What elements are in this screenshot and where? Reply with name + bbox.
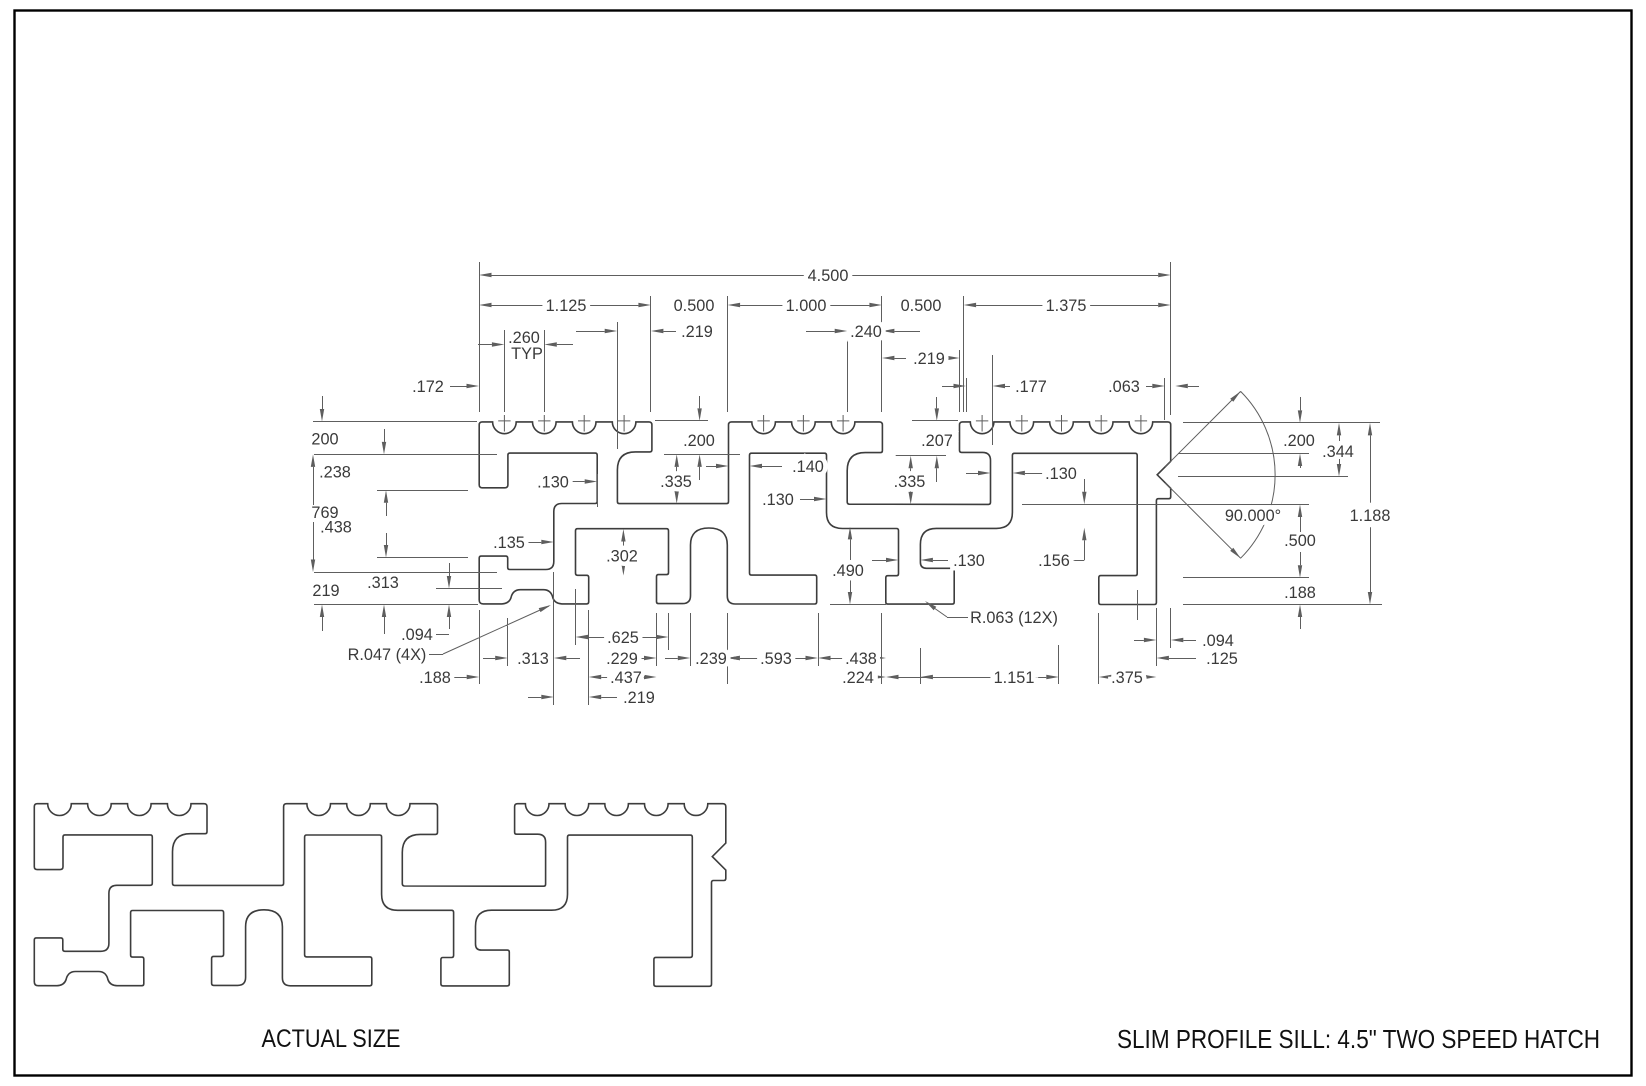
svg-text:.344: .344 [1322, 443, 1354, 461]
svg-text:.238: .238 [319, 463, 351, 481]
svg-text:.375: .375 [1111, 669, 1143, 687]
svg-text:.200: .200 [683, 432, 715, 450]
svg-text:.200: .200 [1283, 432, 1315, 450]
svg-text:.437: .437 [610, 669, 642, 687]
svg-text:0.500: 0.500 [674, 297, 715, 315]
svg-text:ACTUAL SIZE: ACTUAL SIZE [262, 1025, 401, 1053]
svg-text:.438: .438 [320, 518, 352, 536]
svg-text:.335: .335 [894, 473, 926, 491]
svg-text:.219: .219 [681, 323, 713, 341]
svg-text:4.500: 4.500 [808, 267, 849, 285]
svg-text:.229: .229 [606, 650, 638, 668]
svg-text:.140: .140 [792, 458, 824, 476]
svg-text:.500: .500 [1284, 532, 1316, 550]
svg-text:.177: .177 [1015, 378, 1047, 396]
dimension linework [313, 262, 1382, 705]
svg-text:.188: .188 [1284, 584, 1316, 602]
svg-text:.335: .335 [660, 473, 692, 491]
svg-text:.130: .130 [762, 491, 794, 509]
svg-text:.313: .313 [367, 574, 399, 592]
svg-text:.188: .188 [419, 669, 451, 687]
svg-text:.239: .239 [695, 650, 727, 668]
svg-text:R.063 (12X): R.063 (12X) [970, 609, 1058, 627]
svg-text:200: 200 [311, 430, 338, 448]
svg-text:.130: .130 [953, 552, 985, 570]
svg-text:1.151: 1.151 [994, 669, 1035, 687]
svg-text:.438: .438 [845, 650, 877, 668]
svg-text:.172: .172 [412, 378, 444, 396]
svg-text:.490: .490 [832, 562, 864, 580]
scallop center marks (12X) [498, 415, 1147, 432]
svg-text:.593: .593 [760, 650, 792, 668]
svg-text:219: 219 [312, 582, 339, 600]
svg-text:TYP: TYP [511, 345, 543, 363]
svg-text:0.500: 0.500 [901, 297, 942, 315]
svg-text:.135: .135 [493, 534, 525, 552]
svg-text:.094: .094 [1202, 632, 1234, 650]
svg-text:.156: .156 [1038, 552, 1070, 570]
svg-text:1.375: 1.375 [1046, 297, 1087, 315]
svg-text:.130: .130 [537, 473, 569, 491]
svg-text:.219: .219 [913, 350, 945, 368]
svg-text:.625: .625 [607, 629, 639, 647]
svg-text:1.125: 1.125 [546, 297, 587, 315]
svg-text:.125: .125 [1206, 650, 1238, 668]
arrowheads [479, 273, 492, 277]
svg-text:R.047 (4X): R.047 (4X) [348, 646, 427, 664]
svg-text:.094: .094 [401, 626, 433, 644]
svg-text:SLIM PROFILE SILL: 4.5" TWO SP: SLIM PROFILE SILL: 4.5" TWO SPEED HATCH [1117, 1024, 1600, 1054]
svg-text:90.000°: 90.000° [1225, 507, 1281, 525]
svg-text:.219: .219 [623, 689, 655, 707]
svg-text:.240: .240 [850, 323, 882, 341]
svg-text:.063: .063 [1108, 378, 1140, 396]
svg-text:.313: .313 [517, 650, 549, 668]
svg-text:1.000: 1.000 [786, 297, 827, 315]
extrusion profile cross-section (dimensioned view, top) [479, 422, 1171, 605]
svg-text:.302: .302 [606, 547, 638, 565]
svg-text:.130: .130 [1045, 465, 1077, 483]
extrusion profile cross-section (actual size, bottom-left) [34, 804, 726, 987]
svg-text:.224: .224 [842, 669, 874, 687]
svg-text:1.188: 1.188 [1350, 507, 1391, 525]
svg-text:.207: .207 [921, 432, 953, 450]
